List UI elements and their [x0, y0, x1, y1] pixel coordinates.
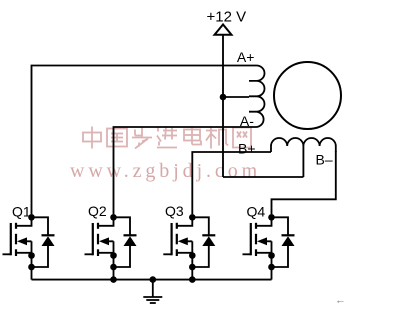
svg-text:B–: B– [316, 152, 333, 168]
mosfet gate bar [171, 223, 173, 255]
svg-text:Q3: Q3 [165, 203, 184, 219]
junction dot: drain node Q1 [28, 214, 35, 221]
mosfet gate bar [92, 223, 94, 255]
junction dot rail Q2 [110, 276, 117, 283]
diode D1 (flyback) [32, 217, 55, 267]
mosfet body arrow [99, 237, 114, 245]
国 [107, 129, 127, 147]
diode D4 (flyback) [272, 217, 295, 267]
inductor coil A (winding A, 4 bumps) [249, 66, 265, 128]
机 [206, 127, 228, 149]
wire: B center tap horizontal [223, 176, 303, 178]
mosfet channel segments [255, 223, 257, 256]
transistor Q2 (N-MOSFET with body diode D2) [85, 214, 137, 280]
wire: drain lead [98, 217, 114, 226]
wire: source to ground rail [191, 241, 193, 279]
mosfet body arrow [257, 237, 272, 245]
transistor Q1 (N-MOSFET with body diode D1) [3, 214, 55, 280]
wire: source to ground rail [31, 241, 33, 279]
transistor Q3 (N-MOSFET with body diode D3) [163, 214, 215, 280]
wire: source lead [177, 252, 193, 254]
wire: center tap A to coil [223, 96, 249, 98]
junction dot: drain node Q4 [268, 214, 275, 221]
mosfet channel segments [176, 223, 178, 256]
junction dot: source node [268, 252, 275, 259]
power arrow symbol [215, 25, 232, 35]
junction dot: source node [28, 252, 35, 259]
svg-text:A-: A- [240, 113, 254, 129]
junction dot: diode return node [268, 264, 275, 271]
wire: gate stub [163, 253, 171, 255]
mosfet gate bar [10, 223, 12, 255]
motor M (stepper motor circle) [274, 62, 341, 129]
mosfet channel segments [15, 223, 17, 256]
svg-text:B+: B+ [238, 141, 256, 157]
wire: source lead [16, 252, 32, 254]
svg-text:+12 V: +12 V [207, 8, 247, 25]
ground rail wire [32, 279, 272, 281]
中 [83, 127, 101, 149]
wire: gate stub [85, 253, 93, 255]
wire: source lead [256, 252, 272, 254]
wire: A+ lead to Q1 drain [32, 66, 250, 215]
电 [184, 127, 201, 145]
svg-text:www.zgbjdj.com: www.zgbjdj.com [70, 160, 261, 182]
mosfet gate bar [250, 223, 252, 255]
junction dot: drain node Q2 [110, 214, 117, 221]
junction dot: diode return node [189, 264, 196, 271]
svg-text:Q1: Q1 [12, 204, 31, 220]
wire: drain lead [16, 217, 32, 226]
wire: B center tap vertical [302, 146, 304, 177]
diode D3 (flyback) [192, 217, 215, 267]
wire: drain lead [256, 217, 272, 226]
wire: B+ lead to Q3 drain [192, 152, 271, 214]
junction dot: A winding center tap [220, 94, 227, 101]
wire: +12V vertical down to B center tap row [222, 35, 224, 177]
junction dot: diode return node [110, 264, 117, 271]
网 [233, 128, 251, 148]
mosfet body arrow [17, 237, 32, 245]
svg-text:←: ← [335, 295, 346, 307]
junction dot: diode return node [28, 264, 35, 271]
wire: gate stub [3, 253, 11, 255]
mosfet channel segments [97, 223, 99, 256]
junction dot: drain node Q3 [189, 214, 196, 221]
junction dot rail Q3 [189, 276, 196, 283]
junction dot: source node [189, 252, 196, 259]
wire: A- lead to Q2 drain [114, 127, 250, 214]
svg-text:Q2: Q2 [88, 203, 107, 219]
wire: source to ground rail [271, 241, 273, 279]
svg-text:Q4: Q4 [247, 204, 266, 220]
diode D2 (flyback) [114, 217, 137, 267]
ground symbol [143, 280, 162, 303]
junction dot rail ground tap [150, 276, 157, 283]
junction dot: source node [110, 252, 117, 259]
wire: gate stub [243, 253, 251, 255]
svg-text:A+: A+ [237, 49, 255, 65]
inductor coil B (winding B, 4 bumps) [271, 138, 336, 152]
wire: drain lead [177, 217, 193, 226]
watermark line 1: 中国步进电机网 [83, 127, 251, 149]
wire: source lead [98, 252, 114, 254]
wire: B- lead to Q4 drain [272, 151, 336, 214]
进 [157, 127, 177, 148]
mosfet body arrow [178, 237, 193, 245]
wire: source to ground rail [113, 241, 115, 279]
transistor Q4 (N-MOSFET with body diode D4) [243, 214, 295, 280]
步 [132, 127, 152, 149]
